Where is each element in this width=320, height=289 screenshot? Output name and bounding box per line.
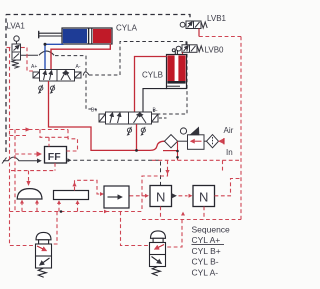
push button valve PB1 [36,232,52,277]
svg-text:CYLA: CYLA [116,24,138,33]
valve LVB0 roller limit valve [172,45,203,53]
cylinder CYLA [39,28,112,44]
regulator with gauge [178,128,207,150]
svg-text:CYL A-: CYL A- [192,267,219,277]
arrowhead on left web [26,127,31,131]
svg-text:N: N [156,190,165,205]
wire red valve B to cylinder B top [135,57,167,113]
svg-text:CYLB: CYLB [142,71,163,80]
wire LVA1 output to hump [21,54,39,56]
filter diamond [207,135,219,148]
AND input arrows [59,204,78,212]
dashed stub near B- pilot [153,109,155,114]
wire dashed B- pilot stub [159,117,167,119]
svg-text:Air: Air [224,126,234,135]
valve A 5/2 directional valve [33,70,81,82]
FF flip-flop box [45,147,67,164]
wire arrow box to N1 [130,195,146,197]
push button valve PB2 [150,231,166,276]
node supply junction [135,149,138,152]
AND output wire up and right [75,180,101,194]
dashed enclosure border left [5,15,7,153]
red dashed control web left [10,48,144,246]
wire red LVB1 down and dashed right [198,29,200,37]
wire red LVB0 stub [182,53,184,58]
wire dashed to A- pilot corner [55,56,96,113]
N2 counter box [193,186,215,207]
svg-text:FF: FF [48,151,61,163]
wire black FF input with hump [3,157,41,161]
svg-text:B-: B- [153,108,158,114]
wire N1 to N2 [172,195,176,197]
valve LVB1 roller limit valve [180,21,207,29]
FRL drop line with junction dots [177,141,179,160]
air inlet arrow [220,140,225,142]
FRL unit: lubricator diamond [165,135,178,148]
dashed box around CYLB right edge [154,42,187,115]
node FF output arrow [68,158,72,162]
valve B 5/2 directional valve [99,112,158,124]
wire red dashed FF set input [15,153,41,155]
svg-text:CYL B+: CYL B+ [192,246,221,256]
wire red supply valve A down [49,81,151,150]
wire dashed signal LVB0 to A- pilot [89,42,186,76]
svg-text:CYL B-: CYL B- [192,257,219,267]
wire cylinder B bottom to valve B [143,89,167,112]
wire red cylinder A right port to valve A [51,44,110,70]
wire red dashed LVA1 pilot lines [7,48,34,73]
svg-text:CYL A+: CYL A+ [192,235,221,245]
exhaust silencer valve A right [50,85,55,94]
svg-text:In: In [226,148,233,157]
one-shot arrow box [104,186,129,208]
svg-text:Sequence: Sequence [192,225,231,235]
OR gate dome [17,189,42,199]
dome input arrows [22,204,37,212]
exhaust silencer valve B left [127,127,132,136]
exhaust silencer valve A left [38,85,43,94]
svg-text:B+: B+ [91,108,97,114]
node arrow on bottom line [104,210,108,214]
svg-text:LVB1: LVB1 [207,14,227,23]
svg-text:A+: A+ [31,64,37,70]
wire black dashed FF output to N1 [67,160,161,185]
red dashed web right [52,37,242,248]
wire blue cylinder A left port to valve A [45,44,64,69]
wire red supply hump to FRL [150,141,165,150]
cylinder CYLB vertical [167,50,187,89]
svg-text:LVA1: LVA1 [7,22,26,31]
N1 counter box [150,186,172,207]
svg-text:A-: A- [76,64,81,70]
wire crossover hump over cylinder A lines [39,51,54,55]
exhaust silencer valve B right [140,127,145,136]
node junction on bottom line [60,210,63,213]
node junction on blue line [44,43,47,46]
wire red supply valve B down [136,124,138,150]
valve LVA1 [12,36,21,68]
crossover hook at A- pilot [83,72,89,76]
svg-text:LVB0: LVB0 [205,46,225,55]
wire dashed top from border to LVB1 [6,15,190,22]
svg-text:N: N [199,190,208,205]
AND gate rectangle [54,191,89,200]
